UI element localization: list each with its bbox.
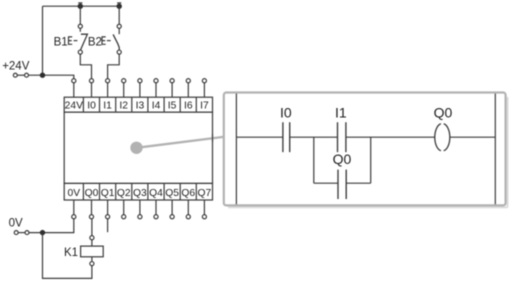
svg-text:I6: I6 bbox=[184, 101, 193, 112]
svg-text:24V: 24V bbox=[65, 101, 83, 112]
PLC input pin circles bbox=[72, 79, 207, 83]
switch B2 blade (NC contact) bbox=[113, 34, 119, 50]
svg-text:Q1: Q1 bbox=[101, 188, 115, 199]
svg-text:Q2: Q2 bbox=[117, 188, 131, 199]
branch rung wire: left to Q0 bbox=[314, 182, 338, 184]
junction 0V node bbox=[40, 230, 45, 235]
svg-text:I2: I2 bbox=[119, 101, 128, 112]
junction at B1 top bbox=[78, 3, 83, 8]
svg-text:I5: I5 bbox=[168, 101, 177, 112]
svg-text:I0: I0 bbox=[280, 104, 292, 120]
contact I0 bbox=[283, 122, 290, 152]
callout dot bbox=[130, 142, 142, 154]
svg-text:I4: I4 bbox=[152, 101, 161, 112]
branch rung wire: Q0 to right bbox=[346, 182, 371, 184]
relay K1 top terminal bbox=[90, 236, 94, 240]
wire +24V feed bbox=[29, 75, 74, 78]
svg-text:0V: 0V bbox=[67, 188, 80, 199]
+24V source terminal circles bbox=[13, 73, 28, 77]
rung wire: I1 to coil bbox=[346, 136, 435, 138]
switch B1 blade (NO contact) bbox=[81, 34, 88, 50]
svg-text:Q7: Q7 bbox=[198, 188, 212, 199]
PLC body U1 bbox=[64, 112, 212, 183]
svg-text:Q0: Q0 bbox=[333, 151, 352, 167]
svg-text:Q0: Q0 bbox=[85, 188, 99, 199]
svg-text:K1: K1 bbox=[64, 247, 78, 259]
PLC output pin circles bbox=[72, 215, 207, 219]
switch B2 top terminal bbox=[117, 24, 121, 28]
contact Q0 (latch) bbox=[338, 170, 346, 199]
wire K1 top stub bbox=[91, 240, 93, 246]
svg-text:I1: I1 bbox=[103, 101, 112, 112]
wire top supply rail bbox=[43, 5, 120, 7]
switch B1 actuator link (dashed) bbox=[74, 40, 78, 42]
junction at B2 top bbox=[117, 3, 122, 8]
svg-text:Q4: Q4 bbox=[149, 188, 163, 199]
contact I1 bbox=[338, 122, 346, 152]
wire rail to B2 bbox=[118, 6, 120, 24]
svg-text:Q6: Q6 bbox=[181, 188, 195, 199]
svg-text:+24V: +24V bbox=[2, 60, 30, 72]
input terminal labels bbox=[65, 101, 209, 112]
wire 0V to PLC bbox=[29, 219, 74, 233]
svg-text:I7: I7 bbox=[200, 101, 209, 112]
callout leader line bbox=[137, 137, 224, 148]
wire stub below Q1 bbox=[107, 219, 109, 232]
svg-text:Q3: Q3 bbox=[133, 188, 147, 199]
branch wire right bbox=[370, 137, 372, 183]
wire B1 to input I0 bbox=[80, 54, 91, 78]
branch wire left bbox=[313, 137, 315, 183]
PLC body right edge over leader bbox=[212, 134, 214, 142]
wire 0V return bbox=[43, 233, 92, 279]
svg-text:B2: B2 bbox=[88, 36, 102, 48]
svg-text:0V: 0V bbox=[9, 217, 23, 229]
output terminal labels bbox=[67, 188, 211, 199]
wire rail to B1 bbox=[79, 6, 81, 24]
switch B2 actuator link (dashed) bbox=[107, 40, 111, 42]
wire +24V riser bbox=[42, 6, 44, 75]
rung wire: rail to I0 bbox=[236, 136, 283, 138]
ladder panel frame bbox=[224, 93, 506, 206]
rung wire: coil to rail bbox=[450, 136, 496, 138]
ladder panel shadow bbox=[228, 97, 508, 207]
svg-text:I3: I3 bbox=[136, 101, 145, 112]
PLC input terminal strip bbox=[64, 97, 212, 112]
switch B2 pushbutton actuator bbox=[102, 37, 106, 44]
0V source terminal circles bbox=[14, 231, 29, 235]
junction +24V node bbox=[40, 73, 45, 78]
relay coil K1 bbox=[81, 246, 104, 257]
rung wire: I0 to I1 bbox=[290, 136, 338, 138]
switch B2 bottom terminal bbox=[117, 50, 121, 54]
switch B1 top terminal bbox=[78, 24, 82, 28]
svg-text:I1: I1 bbox=[335, 104, 347, 120]
svg-text:Q0: Q0 bbox=[434, 104, 453, 120]
PLC output pin stubs bbox=[74, 200, 205, 215]
switch B1 pushbutton actuator bbox=[69, 37, 73, 44]
switch B1 bottom terminal bbox=[78, 50, 82, 54]
relay K1 bottom terminal bbox=[90, 262, 94, 266]
wire K1 bottom stub bbox=[91, 257, 93, 262]
PLC output terminal strip bbox=[64, 183, 212, 200]
svg-text:Q5: Q5 bbox=[165, 188, 179, 199]
PLC input pin stubs bbox=[74, 83, 205, 97]
svg-text:I0: I0 bbox=[87, 101, 96, 112]
svg-text:B1: B1 bbox=[54, 36, 68, 48]
switch B1 fixed contact stub bbox=[79, 28, 81, 31]
switch B2 fixed contact stub bbox=[118, 28, 120, 34]
wire Q0 to K1 bbox=[91, 219, 93, 236]
terminator tick above B1 junction bbox=[78, 2, 82, 4]
coil Q0 bbox=[435, 124, 450, 151]
terminator tick above B2 junction bbox=[117, 2, 121, 4]
wire B2 to input I1 bbox=[108, 54, 120, 78]
ladder left power rail bbox=[235, 94, 237, 205]
ladder right power rail bbox=[494, 94, 496, 205]
